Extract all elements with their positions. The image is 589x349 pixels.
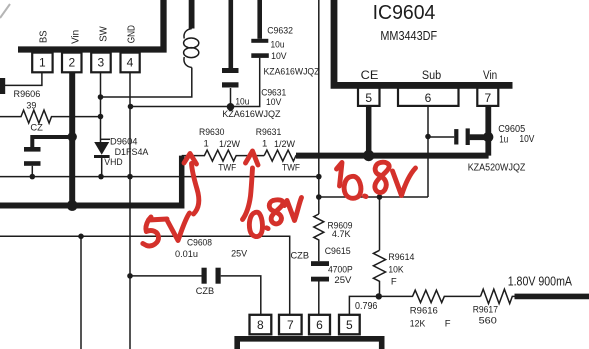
svg-text:0.796: 0.796 <box>355 301 378 312</box>
resistor R9631 zigzag <box>264 150 298 161</box>
pin 6 box (bottom IC) <box>309 315 330 335</box>
svg-text:1/2W: 1/2W <box>274 139 295 150</box>
wire: pin6 lead down <box>427 106 429 197</box>
svg-text:1: 1 <box>39 56 46 70</box>
wire: thick Vin trunk (left) <box>0 203 182 209</box>
svg-text:F: F <box>391 277 397 288</box>
svg-text:7: 7 <box>287 318 294 332</box>
pin 5 box <box>358 88 380 106</box>
svg-text:R9617: R9617 <box>473 305 498 316</box>
svg-text:TWF: TWF <box>218 163 236 174</box>
wire: thick output trunk (right) <box>296 153 489 159</box>
capacitor C9605 plates <box>454 129 458 144</box>
svg-text:TWF: TWF <box>282 163 300 174</box>
svg-text:R9614: R9614 <box>388 252 414 263</box>
resistor R9630 zigzag <box>182 150 265 161</box>
capacitor C9631 plates <box>222 82 239 87</box>
annotation text 5V <box>143 217 167 246</box>
svg-text:R9631: R9631 <box>256 127 281 138</box>
node: big junction trunk/pin5 <box>363 150 374 161</box>
capacitor C9607 plates <box>24 147 41 152</box>
svg-text:8: 8 <box>257 318 264 332</box>
node: GND cross junction <box>127 174 133 180</box>
node: junction on BS line <box>78 234 84 240</box>
node: C9631 bottom junction <box>227 103 235 111</box>
svg-text:KZA520WJQZ: KZA520WJQZ <box>468 163 526 174</box>
resistor R9606 (CZ) zigzag <box>0 110 101 123</box>
IC9604 body (top-right IC, partial) <box>334 0 513 85</box>
svg-text:1: 1 <box>262 139 267 150</box>
svg-text:C9632: C9632 <box>267 25 293 36</box>
pin 6 box <box>398 88 459 106</box>
bottom IC body (partial) <box>237 339 382 349</box>
svg-text:R9616: R9616 <box>410 306 438 317</box>
wire: C9605 thick right lead <box>470 134 484 140</box>
wire: thick elbow up to R9630 <box>179 156 185 209</box>
svg-text:2: 2 <box>68 56 75 70</box>
svg-text:10K: 10K <box>388 264 404 275</box>
svg-text:BS: BS <box>38 30 49 43</box>
resistor R9617 zigzag <box>481 289 516 303</box>
wire: C9615 bottom lead to pin6b <box>318 282 320 315</box>
wire: C9608 right lead to pin8 <box>221 276 261 315</box>
wire: Sub net line y=197 <box>319 196 428 198</box>
svg-text:6: 6 <box>316 318 323 332</box>
svg-text:10V: 10V <box>519 134 534 145</box>
pin 5 box (bottom IC) <box>339 315 360 335</box>
wire: BS net line y=235.5 <box>0 236 290 314</box>
wire: output feedback line y=176.6 <box>0 176 319 178</box>
pin 8 box (bottom IC) <box>250 315 272 335</box>
wire: pin2 thick vertical (Vin net) <box>69 72 75 205</box>
svg-text:KZA616WJQZ: KZA616WJQZ <box>264 67 320 78</box>
svg-text:D9604: D9604 <box>110 136 138 147</box>
svg-text:10V: 10V <box>271 51 287 62</box>
annotation text 10.8V <box>337 163 343 187</box>
svg-text:3: 3 <box>97 56 104 70</box>
node: pin3 branch junction <box>98 94 104 100</box>
annotation arrow to R9630/R9631 junction (0.8V probe) <box>243 168 253 220</box>
svg-text:10V: 10V <box>266 97 282 108</box>
svg-text:C9608: C9608 <box>187 238 212 249</box>
resistor R9616 zigzag <box>413 290 481 302</box>
node: pin6/C9605 junction <box>425 134 431 140</box>
pin 7 box <box>477 88 498 106</box>
svg-text:IC9604: IC9604 <box>373 2 436 24</box>
svg-text:F: F <box>445 319 451 330</box>
svg-text:5: 5 <box>365 91 372 105</box>
node: pin3/CZ junction <box>98 114 104 120</box>
capacitor C9632 plates <box>251 53 268 58</box>
svg-text:39: 39 <box>26 101 36 112</box>
node: diode/output junction <box>98 174 104 180</box>
svg-text:5: 5 <box>346 318 353 332</box>
svg-text:560: 560 <box>479 316 497 327</box>
svg-text:10u: 10u <box>271 40 285 51</box>
wire: cap bottom lead <box>31 166 33 177</box>
pin 2 box <box>62 53 82 73</box>
svg-text:CZB: CZB <box>291 250 310 261</box>
wire: pin1 lead to left stub <box>5 72 42 85</box>
inductor L coil body <box>184 29 192 39</box>
svg-text:Sub: Sub <box>422 70 441 82</box>
pin 3 box <box>91 53 111 73</box>
node: cap/output junction <box>30 174 36 180</box>
inductor L coil thick top lead <box>189 0 195 29</box>
wire: C9631 bottom lead <box>230 88 232 107</box>
wire: thick 1.80V output line <box>515 294 589 300</box>
left edge stub (net to R9606) <box>0 78 5 94</box>
svg-text:CZB: CZB <box>196 286 214 297</box>
capacitor C9615 plates <box>311 261 329 266</box>
svg-text:10u: 10u <box>235 97 249 108</box>
svg-text:CZ: CZ <box>30 123 43 134</box>
svg-text:KZA616WJQZ: KZA616WJQZ <box>222 109 281 120</box>
wire: pin3 lead down to diode <box>100 72 102 142</box>
svg-text:SW: SW <box>99 26 110 42</box>
resistor R9614 zigzag <box>373 250 385 296</box>
node: big junction Vin/cap <box>68 132 77 141</box>
node: big junction pin7/C9605 <box>483 132 493 142</box>
resistor R9609 zigzag <box>314 214 324 261</box>
annotation text 0.8V <box>249 212 262 236</box>
node: R9614 bottom junction <box>376 293 382 299</box>
svg-text:R9630: R9630 <box>199 127 225 138</box>
wire: vertical drop from BS line <box>80 236 82 349</box>
wire: GND branch to C9631/C9632 <box>131 58 260 107</box>
annotation arrow to R9630 left (5V probe) <box>192 164 199 215</box>
svg-text:1.80V 900mA: 1.80V 900mA <box>508 275 573 289</box>
node: C9608 left junction <box>127 273 133 279</box>
svg-text:6: 6 <box>425 91 432 105</box>
diode D9604 leader line <box>101 138 111 140</box>
diode D9604 <box>94 142 109 155</box>
svg-text:MM3443DF: MM3443DF <box>380 28 437 43</box>
node: sense/Sub junction left <box>316 194 322 200</box>
capacitor C9607 top lead (thick elbow to Vin net) <box>32 137 68 147</box>
svg-text:1u: 1u <box>499 135 508 146</box>
wire: R9614 vertical <box>379 197 381 250</box>
svg-text:Vin: Vin <box>483 70 497 82</box>
svg-text:0.01u: 0.01u <box>175 249 198 260</box>
svg-text:Vin: Vin <box>70 30 81 44</box>
wire: pin5b elbow <box>349 296 413 314</box>
svg-text:4: 4 <box>127 56 134 70</box>
wire: pin5 thick riser <box>366 106 372 156</box>
node: pin4 branch junction <box>128 104 134 110</box>
wire: pin7 thick riser down to trunk <box>485 106 491 156</box>
svg-text:1: 1 <box>204 139 209 150</box>
svg-text:R9606: R9606 <box>14 89 41 100</box>
svg-text:GND: GND <box>127 25 138 43</box>
svg-text:12K: 12K <box>410 319 426 330</box>
pin 1 box <box>32 53 52 73</box>
wire: C9608 left lead <box>130 275 202 277</box>
svg-text:25V: 25V <box>231 249 248 260</box>
node: sense line right junction <box>316 174 322 180</box>
svg-text:4.7K: 4.7K <box>332 229 351 240</box>
svg-text:VHD: VHD <box>104 157 122 168</box>
wire: C9632 thick top lead <box>257 0 262 39</box>
node: R9614 top junction <box>377 194 383 200</box>
pin 4 box <box>121 53 140 73</box>
wire: vertical sense drop from trunk <box>318 0 320 214</box>
svg-text:1/2W: 1/2W <box>219 139 240 150</box>
svg-text:7: 7 <box>484 91 491 105</box>
pin 7 box (bottom IC) <box>279 315 302 335</box>
wire: diode cathode to output line <box>101 158 103 177</box>
wire: C9631 thick top lead <box>229 0 234 68</box>
capacitor C9608 plates <box>202 268 207 284</box>
svg-text:25V: 25V <box>334 275 352 286</box>
svg-text:4700P: 4700P <box>328 264 353 275</box>
wire: SW net pin3 to coil bottom <box>101 68 192 98</box>
node: big junction Vin trunk/pin2 <box>67 200 78 211</box>
IC body (top-left IC, partial) <box>18 0 164 50</box>
svg-text:C9615: C9615 <box>325 246 351 257</box>
svg-text:CE: CE <box>361 70 379 82</box>
wire: pin4 GND vertical down whole page <box>129 72 131 349</box>
wire: C9605 left lead <box>428 136 454 138</box>
